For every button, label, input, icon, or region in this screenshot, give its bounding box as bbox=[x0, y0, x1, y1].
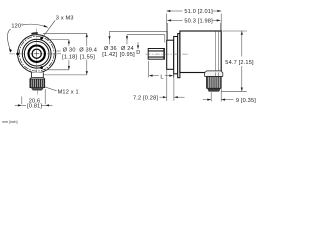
center cross bbox=[34, 53, 39, 55]
120 deg arc left piece bbox=[7, 29, 10, 51]
dim L ext right bbox=[172, 73, 174, 78]
svg-text:[0.95]: [0.95] bbox=[120, 52, 135, 58]
shaft inner lines bbox=[148, 49, 164, 51]
side connector knurl bbox=[206, 76, 221, 88]
front connector knurled nut bbox=[30, 79, 45, 88]
front connector neck bbox=[32, 72, 44, 77]
dim Ø36 leader bbox=[109, 31, 111, 44]
dim Ø39.4: top tangent line bbox=[43, 32, 87, 34]
svg-text:120°: 120° bbox=[11, 24, 23, 30]
dim 20.6 ext right bbox=[44, 89, 46, 104]
shaft circle bbox=[32, 49, 41, 58]
svg-text:[0.81]: [0.81] bbox=[27, 104, 42, 110]
svg-text:[1.42]: [1.42] bbox=[102, 52, 117, 58]
dim 54.7 ext bottom bbox=[222, 90, 247, 92]
dim Ø39.4: vertical line bbox=[86, 33, 88, 46]
dim L ext left bbox=[148, 61, 150, 78]
dim 9 arrows bbox=[203, 99, 211, 101]
dim Ø39.4 arrow up bbox=[86, 33, 88, 37]
svg-text:3 x M3: 3 x M3 bbox=[56, 16, 74, 22]
rear cap lines through collar bbox=[214, 73, 216, 77]
dim 50.3 line bbox=[167, 19, 182, 21]
hub ring (thick) bbox=[29, 46, 45, 62]
dim 7.2 arrows bbox=[160, 96, 167, 98]
vertical centerline bbox=[36, 29, 38, 80]
dim 20.6 line left arrow bbox=[15, 104, 22, 106]
dim Ø24 leader bbox=[126, 35, 128, 45]
dim L line bbox=[151, 75, 159, 77]
dim 9 ext lines bbox=[210, 92, 212, 101]
120 deg bold dash on flange top bbox=[31, 32, 37, 35]
shaft body bbox=[148, 49, 164, 60]
dim Ø39.4: bottom tangent line bbox=[42, 74, 87, 76]
M3 hole bottom bbox=[40, 66, 43, 69]
M3 hole left bbox=[16, 53, 19, 56]
centerline dash right bbox=[58, 53, 61, 55]
horizontal centerline bbox=[9, 53, 61, 55]
dim Ø30: bottom tangent line bbox=[44, 69, 69, 71]
svg-text:[1.55]: [1.55] bbox=[80, 54, 95, 60]
svg-text:Ø 30: Ø 30 bbox=[63, 48, 76, 54]
svg-text:M12 x 1: M12 x 1 bbox=[58, 90, 79, 96]
svg-text:54.7 [2.15]: 54.7 [2.15] bbox=[225, 60, 254, 66]
svg-text:[1.18]: [1.18] bbox=[62, 54, 77, 60]
svg-text:Ø 39.4: Ø 39.4 bbox=[79, 48, 97, 54]
dim 51.0 ext left bbox=[166, 14, 168, 40]
dim 54.7 ext top bbox=[222, 30, 247, 32]
dim D arrow bbox=[137, 42, 139, 49]
svg-text:7.2 [0.28]: 7.2 [0.28] bbox=[133, 95, 158, 101]
svg-text:9 [0.35]: 9 [0.35] bbox=[236, 98, 256, 104]
dim Ø30 arrow up bbox=[68, 40, 70, 44]
dim Ø39.4 arrow down bbox=[86, 71, 88, 75]
120 deg arc arrowhead left end bbox=[9, 48, 12, 52]
svg-text:50.3 [1.98]: 50.3 [1.98] bbox=[184, 18, 213, 24]
bolt circle Ø36 bbox=[19, 36, 54, 71]
dim 20.6 ext left bbox=[21, 97, 23, 105]
flange circle Ø39.4 bbox=[18, 35, 56, 73]
front connector tip bbox=[31, 88, 43, 90]
leader dash at circle bbox=[56, 50, 60, 52]
front connector flare bbox=[30, 78, 32, 79]
side connector tip bbox=[208, 88, 221, 91]
dim Ø30 arrow down bbox=[68, 66, 70, 70]
dim 20.6 line stubs bbox=[22, 104, 26, 106]
svg-text:51.0 [2.01]: 51.0 [2.01] bbox=[184, 9, 213, 15]
dim 54.7 line bbox=[241, 31, 243, 57]
boss Ø30 bbox=[174, 37, 178, 74]
rear cap lines bbox=[214, 31, 216, 72]
dim Ø30: top tangent line bbox=[48, 39, 69, 41]
dim 50.3 ext bbox=[166, 23, 168, 40]
dim 20.6 line right arrow bbox=[45, 104, 52, 106]
svg-text:L: L bbox=[160, 74, 163, 80]
dim 51.0 ext right bbox=[220, 14, 222, 31]
shaft end vertical bbox=[163, 49, 165, 60]
120 deg arc right piece bbox=[23, 24, 48, 27]
front connector centerline bbox=[36, 72, 38, 95]
svg-text:mm [inch]: mm [inch] bbox=[2, 120, 17, 124]
leader M12x1 bbox=[45, 87, 57, 91]
dim 7.2 ext lines bbox=[166, 70, 168, 101]
body bbox=[180, 31, 221, 73]
side connector collar bbox=[205, 71, 223, 77]
flange disc bbox=[178, 34, 180, 78]
dim 51.0 line bbox=[167, 10, 183, 12]
leader 3xM3 bbox=[43, 20, 56, 37]
120 deg arc arrowhead right end bbox=[44, 25, 48, 28]
boss circle Ø30 bbox=[22, 39, 51, 68]
shaft centerline bbox=[146, 53, 190, 55]
svg-text:D: D bbox=[136, 50, 140, 56]
M3 hole top bbox=[40, 37, 43, 40]
boss Ø24 bbox=[167, 40, 174, 69]
dim Ø30: vertical line bbox=[68, 40, 70, 46]
boss circle Ø24 bbox=[24, 41, 49, 66]
